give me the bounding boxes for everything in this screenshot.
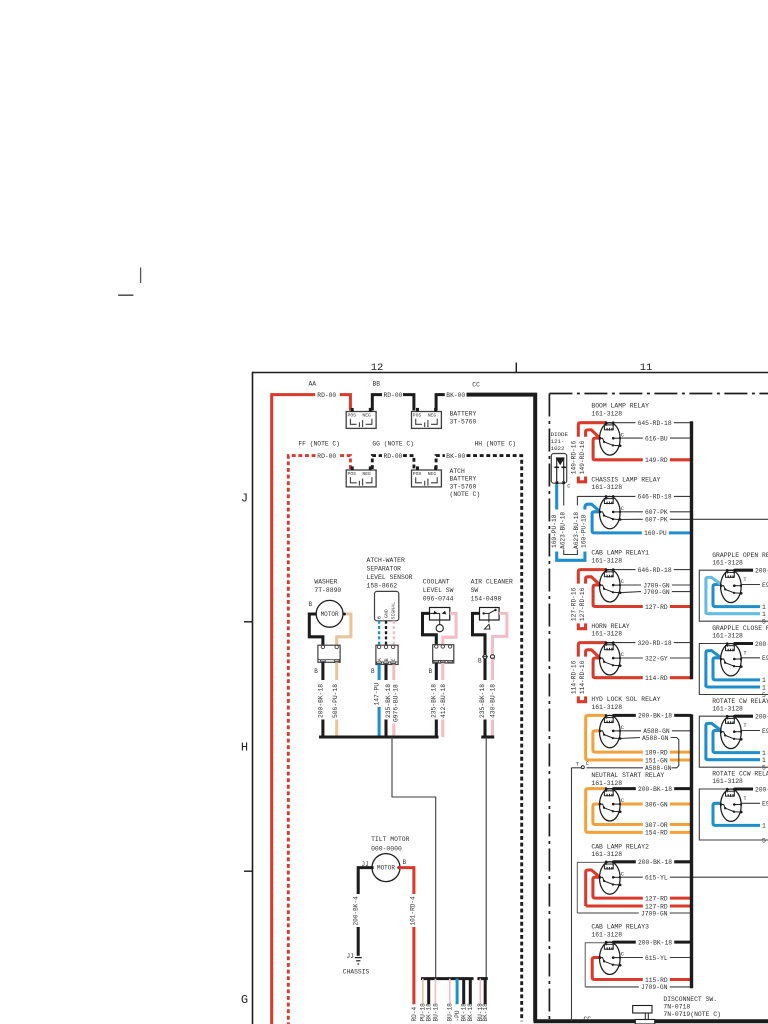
svg-text:LEVEL SW: LEVEL SW bbox=[423, 587, 454, 594]
svg-text:161-3128: 161-3128 bbox=[591, 851, 622, 858]
svg-text:G976-BU-18: G976-BU-18 bbox=[392, 684, 399, 722]
svg-text:646-RD-18: 646-RD-18 bbox=[638, 494, 672, 501]
wire 160-PU chassis leg bbox=[592, 512, 606, 533]
wire 615-YL (K8) bbox=[613, 955, 691, 962]
connector bracket 149-RD-16 bbox=[578, 477, 585, 482]
wire 127-RD-16 common leg bbox=[593, 585, 606, 607]
tilt motor 000-0000 title bbox=[371, 836, 410, 853]
wire 200-BK-18 (K7) bbox=[613, 859, 691, 866]
svg-text:J709-GN: J709-GN bbox=[643, 589, 670, 596]
wire sensor pin B dashed blue bbox=[378, 621, 380, 645]
inline connector air cleaner black bbox=[478, 655, 488, 665]
svg-text:7N-0718: 7N-0718 bbox=[663, 1003, 690, 1010]
relay K10 GRAPPLE CLOSE RELAY symbol bbox=[720, 642, 748, 676]
svg-text:C: C bbox=[621, 871, 624, 877]
svg-text:646-RD-18: 646-RD-18 bbox=[638, 567, 672, 574]
wire A588-GN drop to CC bbox=[571, 768, 573, 1022]
svg-text:235-BK-18: 235-BK-18 bbox=[479, 684, 486, 718]
svg-text:1: 1 bbox=[762, 611, 766, 618]
svg-text:320-RD-18: 320-RD-18 bbox=[638, 640, 672, 647]
svg-text:POS: POS bbox=[413, 471, 422, 477]
svg-text:CHASSIS LAMP RELAY: CHASSIS LAMP RELAY bbox=[591, 476, 660, 483]
inline connector T/C bbox=[572, 761, 590, 769]
svg-text:NEG: NEG bbox=[362, 471, 371, 477]
svg-text:114-RD-16: 114-RD-16 bbox=[579, 660, 586, 694]
wire 322-GY (K4) bbox=[613, 655, 691, 662]
svg-text:161-3128: 161-3128 bbox=[712, 778, 743, 785]
wire 646-RD-18 (K2) bbox=[613, 494, 691, 501]
wire 127-RD (K3) bbox=[606, 604, 692, 611]
svg-text:127-RD: 127-RD bbox=[645, 895, 668, 902]
svg-text:B: B bbox=[371, 668, 375, 675]
wire air cleaner sw pink bbox=[493, 613, 507, 680]
wire 115-RD (K8) bbox=[606, 977, 692, 984]
svg-text:BK-18: BK-18 bbox=[467, 1003, 474, 1022]
svg-text:C: C bbox=[621, 652, 624, 658]
connector bracket diode/relay blue bbox=[557, 552, 585, 561]
ground bus lower bbox=[690, 714, 693, 988]
svg-text:DISCONNECT SW.: DISCONNECT SW. bbox=[663, 996, 717, 1003]
wire 127-RD cab2 inner bbox=[593, 877, 606, 898]
wire A588-GN (K5) bbox=[613, 728, 691, 735]
svg-text:E961-BR: E961-BR bbox=[762, 728, 768, 735]
wire 306-GN (K6) bbox=[613, 801, 691, 808]
svg-text:616-BU: 616-BU bbox=[645, 435, 668, 442]
relay K9 GRAPPLE OPEN RELAY title bbox=[712, 552, 768, 567]
svg-text:200-BK-4: 200-BK-4 bbox=[353, 896, 360, 926]
svg-text:161-3128: 161-3128 bbox=[591, 704, 622, 711]
wire 127-RD-16 harness pair bbox=[571, 570, 606, 622]
svg-text:160-PU-18: 160-PU-18 bbox=[551, 514, 558, 548]
relay K6 NEUTRAL START RELAY title bbox=[591, 772, 664, 787]
relay K7 CAB LAMP RELAY2 title bbox=[591, 843, 649, 858]
svg-text:J709-GN: J709-GN bbox=[641, 910, 668, 917]
connector sensor A B C bbox=[376, 645, 398, 664]
wire blue (K12) bbox=[713, 803, 760, 825]
wire harness orange inner bbox=[593, 731, 606, 752]
wire washer motor tan bbox=[337, 614, 351, 645]
svg-text:B: B bbox=[314, 668, 318, 675]
tilt motor symbol bbox=[362, 854, 407, 882]
atch battery 3T-5760 #2 bbox=[412, 466, 442, 487]
svg-text:G: G bbox=[241, 993, 248, 1007]
wire sensor SIGNAL dashed pink bbox=[393, 621, 395, 645]
wire 430-BU-18 air cleaner bbox=[490, 659, 497, 737]
connector bracket 127-RD-16 bbox=[578, 623, 585, 628]
wire -PU stub bbox=[454, 979, 461, 1022]
svg-text:CAB LAMP RELAY2: CAB LAMP RELAY2 bbox=[591, 843, 649, 850]
svg-text:645-RD-18: 645-RD-18 bbox=[638, 420, 672, 427]
enclosure K11 bbox=[699, 716, 768, 767]
svg-text:1022: 1022 bbox=[551, 445, 565, 452]
wire BK-18 stub bbox=[482, 979, 489, 1022]
svg-text:BU-18: BU-18 bbox=[447, 1003, 454, 1022]
svg-text:1: 1 bbox=[762, 757, 766, 764]
label BATTERY 3T-5760 bbox=[450, 411, 477, 426]
svg-text:NEUTRAL START RELAY: NEUTRAL START RELAY bbox=[591, 772, 664, 779]
coolant level sw 096-0744 title bbox=[423, 578, 454, 602]
connector washer bbox=[318, 645, 340, 662]
svg-text:161-3128: 161-3128 bbox=[591, 780, 622, 787]
wire 235-BK-18 air cleaner bbox=[479, 659, 486, 737]
svg-text:7T-8890: 7T-8890 bbox=[314, 587, 341, 594]
svg-text:GRAPPLE OPEN RELAY: GRAPPLE OPEN RELAY bbox=[712, 552, 768, 559]
svg-text:GG (NOTE C): GG (NOTE C) bbox=[372, 441, 414, 448]
wire 646-RD-18 (K3) bbox=[613, 567, 691, 574]
enclosure cab lamp relay3 bbox=[585, 943, 612, 987]
svg-text:BK-00: BK-00 bbox=[446, 392, 465, 399]
svg-text:A623-BU-18: A623-BU-18 bbox=[573, 512, 580, 549]
svg-text:CC: CC bbox=[472, 382, 480, 389]
svg-text:LEVEL SENSOR: LEVEL SENSOR bbox=[367, 574, 413, 581]
svg-text:CHASSIS: CHASSIS bbox=[343, 969, 370, 976]
svg-text:154-RD: 154-RD bbox=[645, 830, 668, 837]
wire E961 (K12) bbox=[734, 801, 768, 808]
svg-text:COOLANT: COOLANT bbox=[423, 578, 450, 585]
svg-text:189-RD: 189-RD bbox=[645, 749, 668, 756]
svg-text:ATCH: ATCH bbox=[450, 468, 466, 475]
wire 160-PU (K2) bbox=[606, 530, 692, 537]
wire 200-BK-4 tilt motor bbox=[353, 868, 374, 956]
svg-text:B: B bbox=[376, 616, 382, 619]
wire GG RD-00 dashed link bbox=[372, 456, 414, 469]
wire blue inner (K10) bbox=[713, 658, 760, 680]
wire 127-RD (K7) bbox=[606, 895, 692, 902]
svg-text:149-RD: 149-RD bbox=[645, 457, 668, 464]
svg-text:154-0498: 154-0498 bbox=[471, 595, 502, 602]
svg-text:RD-00: RD-00 bbox=[384, 392, 403, 399]
wire 114-RD-16 common leg bbox=[593, 658, 606, 678]
wire PU-18 stub bbox=[420, 979, 427, 1022]
connector bracket diode/relay thin bbox=[564, 550, 578, 555]
svg-text:C: C bbox=[621, 725, 624, 731]
row tick J/H bbox=[244, 621, 253, 623]
ground chassis JJ bbox=[343, 953, 370, 976]
wire 307-OR (K6) bbox=[606, 822, 692, 829]
enclosure K12 bbox=[699, 789, 768, 840]
wire 200-BK-18 washer bbox=[317, 662, 324, 737]
svg-text:BB: BB bbox=[373, 381, 381, 388]
svg-text:J709-GN: J709-GN bbox=[641, 984, 668, 991]
svg-text:A623-BU-18: A623-BU-18 bbox=[559, 512, 566, 549]
svg-text:160-PU: 160-PU bbox=[644, 530, 667, 537]
wire 615-YL (K7) bbox=[613, 875, 768, 882]
svg-text:AA: AA bbox=[309, 381, 317, 388]
svg-text:B: B bbox=[309, 601, 313, 608]
wire 506-PU-18 washer bbox=[332, 662, 339, 737]
relay K10 GRAPPLE CLOSE RELAY title bbox=[712, 625, 768, 640]
svg-text:161-3128: 161-3128 bbox=[591, 631, 622, 638]
svg-text:CAB LAMP RELAY3: CAB LAMP RELAY3 bbox=[591, 924, 649, 931]
registration mark vertical bbox=[140, 268, 142, 284]
relay K3 CAB LAMP RELAY1 symbol bbox=[599, 568, 624, 602]
relay K8 CAB LAMP RELAY3 symbol bbox=[599, 941, 624, 975]
svg-text:C: C bbox=[621, 579, 624, 585]
relay K7 CAB LAMP RELAY2 symbol bbox=[599, 861, 624, 895]
wire J709-GN (K8) bbox=[585, 984, 691, 991]
svg-text:607-PK: 607-PK bbox=[645, 517, 668, 524]
svg-text:HORN RELAY: HORN RELAY bbox=[591, 623, 630, 630]
svg-text:5: 5 bbox=[762, 837, 766, 844]
wire 101-RD-4 tilt motor bbox=[398, 868, 416, 1005]
svg-text:412-BU-18: 412-BU-18 bbox=[440, 684, 447, 718]
svg-text:(NOTE C): (NOTE C) bbox=[450, 491, 481, 498]
disconnect sw 7N-0718 title bbox=[663, 996, 721, 1018]
wire sensor GND dashed black bbox=[385, 621, 387, 645]
relay K2 CHASSIS LAMP RELAY title bbox=[591, 476, 660, 491]
wire air cleaner bus drop bbox=[485, 737, 487, 979]
boundary dash-dot horizontal bbox=[549, 393, 768, 395]
wire ground bus drop bbox=[392, 737, 436, 979]
relay K11 ROTATE CW RELAY title bbox=[712, 698, 768, 713]
ground bus bottom main bbox=[421, 977, 474, 980]
relay K5 HYD LOCK SOL RELAY title bbox=[591, 696, 660, 711]
wire 151-GN (K5) bbox=[606, 757, 692, 764]
wire 607-PK (K2) bbox=[613, 509, 691, 516]
wire BK-18 stub bbox=[461, 979, 468, 1022]
svg-text:161-3128: 161-3128 bbox=[712, 705, 743, 712]
wire 114-RD (K4) bbox=[606, 675, 692, 682]
svg-text:B: B bbox=[403, 859, 407, 866]
svg-text:J: J bbox=[241, 492, 248, 506]
svg-text:ROTATE CW RELAY: ROTATE CW RELAY bbox=[712, 698, 768, 705]
svg-text:151-GN: 151-GN bbox=[645, 757, 668, 764]
registration mark horizontal bbox=[118, 294, 133, 296]
washer motor symbol bbox=[309, 600, 347, 627]
svg-text:147-PU: 147-PU bbox=[373, 683, 380, 706]
wire A623-BU-16 chassis relay bbox=[573, 496, 606, 549]
svg-text:C: C bbox=[621, 432, 624, 438]
svg-text:615-YL: 615-YL bbox=[645, 875, 668, 882]
wire G976-BU-18 sensor bbox=[392, 665, 399, 738]
svg-text:C: C bbox=[621, 798, 624, 804]
relay K8 CAB LAMP RELAY3 title bbox=[591, 924, 649, 939]
svg-text:200-BK-18: 200-BK-18 bbox=[638, 859, 672, 866]
svg-text:322-GY: 322-GY bbox=[645, 655, 668, 662]
svg-text:3T-5760: 3T-5760 bbox=[450, 483, 477, 490]
air cleaner switch symbol bbox=[480, 608, 500, 630]
svg-text:GRAPPLE CLOSE RELAY: GRAPPLE CLOSE RELAY bbox=[712, 625, 768, 632]
wire 200-BK-18 (K6) bbox=[613, 786, 691, 793]
svg-text:SIGNAL: SIGNAL bbox=[391, 602, 397, 620]
svg-text:1: 1 bbox=[762, 750, 766, 757]
column tick 12/11 bbox=[515, 363, 517, 373]
enclosure K10 bbox=[699, 644, 768, 695]
wire 127-RD cab2 outer bbox=[586, 870, 600, 906]
svg-text:MOTOR: MOTOR bbox=[377, 865, 395, 872]
wire 200-BK-18 (K10) bbox=[734, 641, 768, 648]
svg-text:306-GN: 306-GN bbox=[645, 801, 668, 808]
atch-water separator level sensor title bbox=[367, 557, 413, 590]
svg-text:RD-00: RD-00 bbox=[317, 453, 336, 460]
svg-text:MOTOR: MOTOR bbox=[321, 611, 339, 618]
svg-text:BU-18: BU-18 bbox=[432, 1003, 439, 1022]
wire 235-BK-18 sensor bbox=[385, 665, 392, 738]
svg-text:200-BK-18: 200-BK-18 bbox=[755, 641, 768, 648]
wire 645-RD-18 (K1) bbox=[613, 420, 691, 427]
wire 235-BK-18 coolant bbox=[431, 663, 438, 737]
svg-text:RD-4: RD-4 bbox=[411, 1007, 418, 1022]
svg-text:WASHER: WASHER bbox=[314, 578, 337, 585]
wire 160-PU-18 chassis relay blue bbox=[581, 504, 600, 548]
svg-text:NEG: NEG bbox=[362, 413, 371, 419]
wire 200-BK-18 (K12) bbox=[734, 786, 768, 793]
svg-text:C: C bbox=[586, 761, 589, 767]
wire blue inner (K9) bbox=[713, 585, 760, 607]
wire HH BK-00 dashed bbox=[436, 456, 522, 1022]
svg-text:1: 1 bbox=[762, 823, 766, 830]
wire coolant sw pink bbox=[443, 613, 456, 644]
svg-text:158-8662: 158-8662 bbox=[367, 583, 398, 590]
svg-text:149-RD-16: 149-RD-16 bbox=[579, 440, 586, 474]
sheet border top bbox=[253, 372, 768, 374]
disconnect switch symbol bbox=[633, 1006, 655, 1024]
wire E961 (K9) bbox=[734, 582, 768, 589]
svg-text:200-BK-18: 200-BK-18 bbox=[755, 786, 768, 793]
connector bracket 114-RD-16 bbox=[578, 696, 585, 701]
wire 189-RD (K5) bbox=[606, 749, 692, 756]
svg-text:506-PU-18: 506-PU-18 bbox=[332, 684, 339, 718]
svg-text:200-BK-18: 200-BK-18 bbox=[638, 939, 672, 946]
wire coolant sw black bbox=[423, 613, 437, 644]
svg-text:B: B bbox=[478, 658, 482, 665]
wire 149-RD (K1) bbox=[606, 457, 692, 464]
wire E961 (K11) bbox=[734, 728, 768, 735]
svg-text:101-RD-4: 101-RD-4 bbox=[410, 896, 417, 926]
svg-text:CAB LAMP RELAY1: CAB LAMP RELAY1 bbox=[591, 550, 649, 557]
svg-text:E961-BR: E961-BR bbox=[762, 801, 768, 808]
wire BK-18 stub bbox=[467, 979, 474, 1022]
svg-text:430-BU-18: 430-BU-18 bbox=[490, 684, 497, 718]
svg-text:161-3128: 161-3128 bbox=[591, 932, 622, 939]
svg-text:160-PU-18: 160-PU-18 bbox=[581, 514, 588, 548]
svg-text:B: B bbox=[429, 668, 433, 675]
svg-text:JJ: JJ bbox=[347, 953, 354, 960]
relay K4 HORN RELAY title bbox=[591, 623, 630, 638]
svg-text:BK-00: BK-00 bbox=[446, 453, 465, 460]
svg-text:NEG: NEG bbox=[428, 413, 437, 419]
wire 149-RD-16 harness pair bbox=[571, 423, 606, 475]
enclosure cab lamp relay2 bbox=[577, 862, 612, 913]
battery 3T-5760 #1 bbox=[346, 408, 376, 429]
svg-text:12: 12 bbox=[371, 362, 384, 374]
svg-text:200-BK-18: 200-BK-18 bbox=[755, 568, 768, 575]
svg-text:NEG: NEG bbox=[428, 471, 437, 477]
ground bus bottom short bbox=[477, 977, 487, 980]
relay K1 BOOM LAMP RELAY title bbox=[591, 403, 649, 418]
svg-text:000-0000: 000-0000 bbox=[371, 846, 402, 853]
connector coolant bbox=[433, 645, 454, 663]
svg-text:POS: POS bbox=[348, 471, 357, 477]
svg-text:1: 1 bbox=[762, 604, 766, 611]
diode 121-1022 symbol bbox=[551, 454, 570, 490]
wire J709-GN (K3) bbox=[620, 589, 691, 596]
svg-text:200-BK-18: 200-BK-18 bbox=[638, 786, 672, 793]
svg-text:235-BK-18: 235-BK-18 bbox=[385, 684, 392, 718]
svg-text:127-RD-16: 127-RD-16 bbox=[571, 587, 578, 621]
svg-text:HH (NOTE C): HH (NOTE C) bbox=[475, 441, 517, 448]
svg-text:7N-0719(NOTE C): 7N-0719(NOTE C) bbox=[663, 1011, 721, 1018]
ground bus air cleaner section bbox=[481, 735, 494, 738]
wire 320-RD-18 (K4) bbox=[613, 640, 691, 647]
wire E961 (K10) bbox=[734, 655, 768, 662]
wire 115-RD cab3 leg bbox=[592, 958, 606, 980]
svg-text:BATTERY: BATTERY bbox=[450, 476, 477, 483]
wire J709-GN (K3) bbox=[613, 582, 691, 589]
air cleaner sw 154-0498 title bbox=[471, 578, 513, 602]
svg-text:127-RD: 127-RD bbox=[645, 903, 668, 910]
svg-text:307-OR: 307-OR bbox=[645, 822, 668, 829]
wire washer motor B black bbox=[309, 614, 323, 645]
svg-text:ROTATE CCW RELAY: ROTATE CCW RELAY bbox=[712, 771, 768, 778]
svg-text:E961-BR: E961-BR bbox=[762, 655, 768, 662]
wire 200-BK-18 (K9) bbox=[734, 568, 768, 575]
svg-text:096-0744: 096-0744 bbox=[423, 595, 454, 602]
svg-text:A588-GN: A588-GN bbox=[645, 765, 672, 772]
svg-text:11: 11 bbox=[640, 362, 653, 374]
relay K5 HYD LOCK SOL RELAY symbol bbox=[599, 714, 624, 748]
svg-text:C: C bbox=[391, 658, 397, 661]
svg-text:127-RD: 127-RD bbox=[645, 604, 668, 611]
svg-text:3T-5760: 3T-5760 bbox=[450, 418, 477, 425]
svg-text:1: 1 bbox=[762, 677, 766, 684]
svg-text:121-: 121- bbox=[551, 438, 565, 445]
svg-text:SW: SW bbox=[471, 587, 479, 594]
svg-text:607-PK: 607-PK bbox=[645, 509, 668, 516]
svg-text:161-3128: 161-3128 bbox=[591, 410, 622, 417]
wire blue inner (K11) bbox=[713, 731, 760, 753]
svg-text:BK-18: BK-18 bbox=[482, 1003, 489, 1022]
relay K1 BOOM LAMP RELAY symbol bbox=[599, 421, 624, 455]
svg-text:235-BK-18: 235-BK-18 bbox=[431, 684, 438, 718]
enclosure K9 bbox=[699, 570, 768, 621]
chassis ground bus bottom CC bbox=[534, 1019, 768, 1023]
svg-text:FF (NOTE C): FF (NOTE C) bbox=[298, 441, 340, 448]
wire harness orange outer bbox=[586, 715, 606, 760]
battery 3T-5760 #2 bbox=[412, 408, 442, 429]
sensor body 158-8662 bbox=[375, 591, 399, 620]
relay K4 HORN RELAY symbol bbox=[599, 641, 624, 675]
relay K11 ROTATE CW RELAY symbol bbox=[720, 715, 748, 749]
svg-text:DIODE: DIODE bbox=[551, 431, 569, 438]
wire blue outer (K11) bbox=[706, 723, 721, 759]
wire 147-PU sensor bbox=[373, 665, 380, 738]
svg-text:BOOM LAMP RELAY: BOOM LAMP RELAY bbox=[591, 403, 649, 410]
svg-text:SEPARATOR: SEPARATOR bbox=[367, 566, 402, 573]
wire BU-18 stub bbox=[477, 979, 484, 1022]
svg-text:161-3128: 161-3128 bbox=[712, 633, 743, 640]
svg-text:161-3128: 161-3128 bbox=[712, 559, 743, 566]
svg-text:127-RD-16: 127-RD-16 bbox=[579, 587, 586, 621]
svg-text:H: H bbox=[241, 741, 248, 755]
wire A588-GN (K5) bbox=[620, 735, 671, 742]
wire 127-RD (K7) bbox=[606, 903, 692, 910]
row tick H/G bbox=[244, 870, 253, 872]
ground bus washer section bbox=[319, 735, 439, 738]
wire 114-RD-16 harness pair bbox=[571, 643, 606, 695]
power bus upper bbox=[690, 421, 693, 679]
svg-text:161-3128: 161-3128 bbox=[591, 484, 622, 491]
wire BB RD-00 battery link bbox=[372, 395, 414, 411]
inline connector air cleaner pink bbox=[490, 655, 496, 660]
atch battery 3T-5760 #1 bbox=[346, 466, 376, 487]
relay K9 GRAPPLE OPEN RELAY symbol bbox=[720, 569, 748, 603]
svg-text:B: B bbox=[384, 658, 390, 661]
svg-text:POS: POS bbox=[413, 413, 422, 419]
wire harness orange inner bbox=[593, 804, 606, 825]
wire A623-BU-16 diode bbox=[559, 484, 566, 549]
svg-text:C: C bbox=[621, 952, 624, 958]
